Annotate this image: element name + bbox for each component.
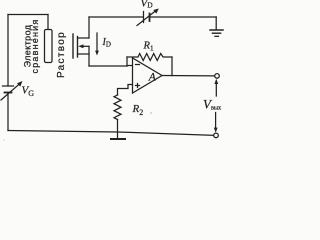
ground bottom	[111, 138, 125, 140]
resistor R1	[127, 54, 172, 61]
battery VD short plate	[149, 14, 151, 22]
wire plus input from R2	[118, 85, 133, 96]
plus sign	[136, 84, 140, 88]
wire left rail upper	[7, 15, 9, 87]
reference electrode body	[45, 30, 53, 63]
battery VG long plate	[3, 85, 14, 87]
wire feedback riser	[126, 57, 128, 66]
svg-text:Раствор: Раствор	[56, 31, 67, 78]
drain stub	[78, 37, 90, 39]
wire source to opamp minus	[89, 65, 127, 67]
wire output	[162, 75, 215, 77]
ground top-right	[210, 30, 223, 36]
svg-text:Электродсравнения: Электродсравнения	[23, 19, 41, 74]
current arrow ID	[95, 33, 99, 56]
body arrow	[78, 44, 89, 48]
wire R2 to ground	[117, 120, 119, 139]
wire left rail lower	[7, 93, 9, 131]
wire top-left	[8, 14, 48, 16]
op-amp A	[133, 58, 163, 93]
wire right drop	[215, 17, 217, 30]
vout arrow lower	[214, 113, 218, 133]
source stub	[78, 53, 90, 55]
minus sign	[136, 64, 140, 66]
transistor channel line	[77, 37, 79, 58]
transistor gate plate	[72, 34, 74, 58]
wire minus input	[127, 65, 133, 67]
faint scan speck	[150, 112, 152, 114]
drain riser wire	[88, 17, 90, 38]
faint scan speck	[3, 139, 5, 141]
wire top right-of-VD	[150, 16, 217, 18]
resistor R2	[114, 95, 121, 120]
svg-text:VD: VD	[141, 0, 154, 10]
wire R1 to output	[171, 57, 173, 76]
vout arrow upper	[214, 79, 218, 96]
variable arrow VG	[1, 81, 23, 100]
terminal top	[215, 74, 220, 79]
terminal bottom	[214, 133, 219, 138]
wire top left-of-VD	[89, 16, 143, 18]
battery VD long plate	[143, 12, 145, 23]
wire electrode lead	[47, 15, 49, 30]
variable arrow VD	[137, 9, 159, 26]
wire bottom rail	[8, 131, 214, 136]
battery VG short plate	[5, 92, 12, 94]
source drop wire	[88, 46, 90, 66]
svg-text:A: A	[148, 72, 157, 84]
